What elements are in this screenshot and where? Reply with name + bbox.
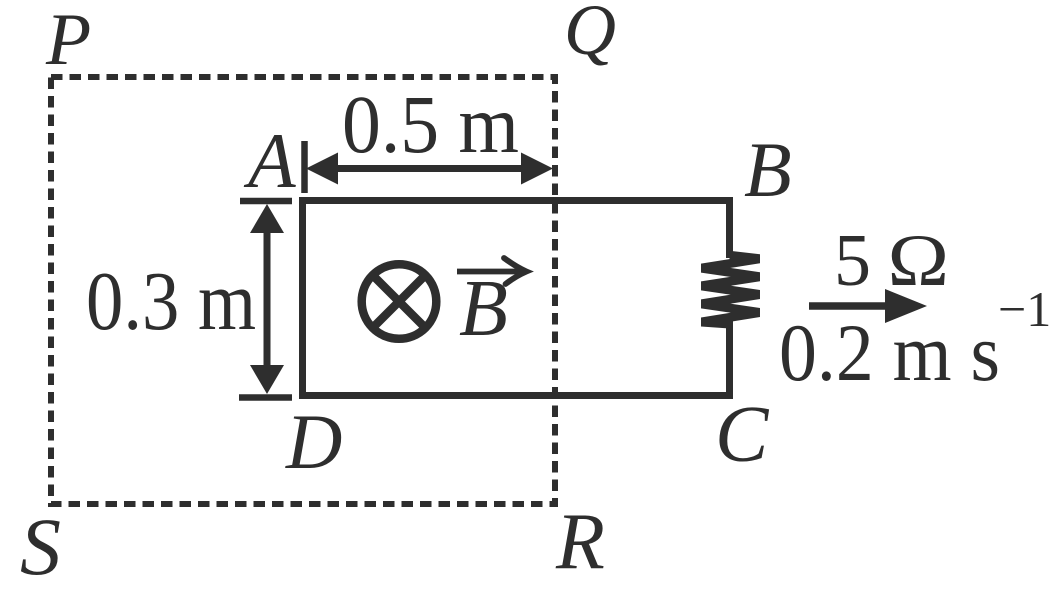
magnetic field region PQRS (dashed boundary) [51, 77, 555, 504]
svg-text:Q: Q [564, 0, 616, 70]
dimension tick at A for 0.5 m [301, 141, 308, 193]
svg-text:−1: −1 [998, 281, 1051, 337]
svg-text:S: S [20, 501, 61, 592]
dimension arrow 0.5 m (double headed) [330, 165, 530, 172]
svg-text:P: P [45, 0, 91, 81]
dimension tick at A for 0.3 m (top) [240, 198, 292, 205]
wire AD (left side of loop) [299, 197, 306, 399]
svg-text:0.2 m s: 0.2 m s [779, 307, 1000, 398]
svg-text:5: 5 [834, 220, 871, 302]
svg-text:D: D [285, 398, 342, 485]
wire B to resistor (upper right side) [726, 197, 733, 258]
svg-text:0.3 m: 0.3 m [86, 255, 256, 348]
wire DC (bottom side of loop) [299, 392, 733, 399]
svg-text:R: R [555, 498, 605, 586]
field into page symbol (circle with X) [362, 264, 437, 339]
svg-text:B: B [744, 126, 792, 213]
dimension arrow 0.3 m (double headed) [264, 230, 271, 368]
svg-text:Ω: Ω [888, 219, 950, 301]
velocity arrow [809, 302, 895, 310]
svg-text:A: A [243, 117, 296, 204]
wire AB (top side of loop) [299, 197, 733, 204]
wire resistor to C (lower right side) [726, 321, 733, 399]
resistor R1 5 ohm (zigzag) [701, 251, 760, 329]
B vector arrow over label [457, 269, 522, 275]
dimension tick at D for 0.3 m (bottom) [239, 394, 292, 401]
svg-text:C: C [715, 391, 770, 479]
svg-text:0.5 m: 0.5 m [342, 78, 519, 170]
svg-text:B: B [459, 265, 508, 353]
